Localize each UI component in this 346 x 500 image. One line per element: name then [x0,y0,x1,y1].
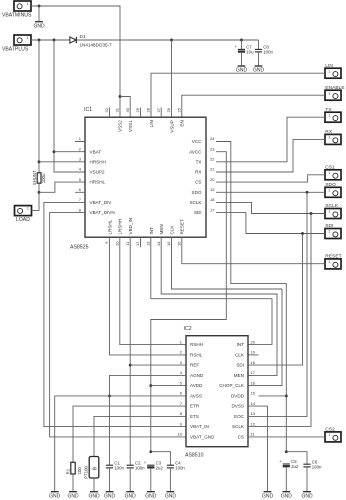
wire CS to CS1 connector [216,175,325,182]
capacitor C7 10u [235,44,255,54]
wire C7 lead [241,40,243,49]
svg-text:IC2: IC2 [184,326,192,332]
svg-text:GND: GND [301,493,313,499]
junction VBATMINUS-GND [38,5,41,8]
wire to C6 [286,452,307,465]
ground GND under C2 [125,492,137,500]
connector TX [325,107,341,122]
wire AVDD pin 5 [151,385,186,387]
svg-text:10: 10 [115,241,120,246]
svg-text:TX: TX [196,159,202,164]
svg-text:GND: GND [125,493,137,499]
connector RX [325,129,341,144]
wire diode cathode to VSUP rail [77,39,259,41]
wire ETS to PT100 [94,416,186,456]
svg-text:16: 16 [251,380,256,385]
svg-text:INT: INT [237,342,245,347]
wire C6 to ground [306,467,308,492]
junction SDO-EOC [306,191,309,194]
wire REF pin 3 [130,364,186,366]
svg-text:17: 17 [251,370,256,375]
svg-text:VBATMINUS: VBATMINUS [2,13,32,19]
svg-text:GND: GND [165,493,177,499]
connector X3 LOAD [15,206,32,224]
capacitor C8 100n [255,45,274,55]
wire DVSS to ground [248,406,268,492]
svg-text:REF: REF [190,363,199,368]
wire VBAT pin rail [54,40,85,172]
wire VBATPLUS to diode anode [31,39,70,41]
wire TX to connector [216,117,325,162]
wire to C4 [151,452,171,466]
svg-text:1: 1 [26,36,28,40]
wire LRSHH to RSHH [120,237,186,345]
ground GND under AVSS rail [49,492,61,500]
ground GND under DVSS [262,492,274,500]
svg-text:23: 23 [210,146,215,151]
svg-text:RX: RX [195,170,201,175]
svg-text:RESET: RESET [180,219,185,235]
svg-text:15: 15 [166,241,171,246]
junction HRSHH tap [38,160,41,163]
wire VBAT_DIVN to VBAT_GND [50,213,186,437]
wire C2 to ground [129,468,131,492]
svg-text:DVDD: DVDD [231,394,245,399]
svg-text:1: 1 [26,2,28,6]
junction HRSHL tap [38,191,41,194]
svg-text:PT100: PT100 [84,466,89,479]
resistor R1 100 [65,462,82,474]
svg-text:30: 30 [125,107,130,112]
junction VBAT pin tap [53,150,56,153]
svg-text:18: 18 [210,197,215,202]
wire C7 to ground [241,53,243,66]
svg-text:19: 19 [251,350,256,355]
op-amp U IC1 AS8525 body [70,107,215,250]
svg-text:32: 32 [104,107,109,112]
svg-text:12: 12 [135,241,140,246]
svg-text:100n: 100n [263,50,273,55]
svg-text:2u2: 2u2 [156,465,164,470]
svg-text:GND: GND [262,493,274,499]
svg-text:1: 1 [328,69,330,73]
junction VSS2 node [119,95,122,98]
svg-text:20: 20 [251,339,256,344]
svg-text:100n: 100n [114,465,124,470]
svg-text:AVCC: AVCC [189,149,202,154]
wire EN pin 25 to ENABLE connector [182,95,325,117]
wire HRSHH sense [39,161,85,163]
ground GND under C4 [165,492,177,500]
junction C3 tap [149,450,152,453]
wire VBATMINUS to VSS2 net [31,6,120,117]
svg-text:IC1: IC1 [84,107,92,113]
svg-text:10: 10 [178,432,183,437]
ground GND under C6 [301,492,313,500]
svg-text:24: 24 [210,136,215,141]
svg-text:VBATPLUS: VBATPLUS [2,47,29,53]
wire VCC net to DVDD [216,142,286,452]
wire C3 to ground [150,469,152,492]
svg-text:16: 16 [177,241,182,246]
capacitor C6 100n [303,459,322,469]
wire ETR to R1 [73,406,186,462]
wire LRSHL to RSHL [110,237,187,355]
svg-text:VSS2: VSS2 [118,120,123,132]
svg-text:INT: INT [149,227,154,235]
connector LIN [325,63,341,78]
svg-text:VCC: VCC [192,139,202,144]
svg-text:ETS: ETS [190,414,199,419]
svg-text:14: 14 [251,401,256,406]
svg-text:21: 21 [210,167,215,172]
svg-text:CS: CS [238,435,244,440]
svg-text:CHOP_CLK: CHOP_CLK [219,383,245,388]
svg-text:100n: 100n [135,465,145,470]
svg-text:VBAT_GND: VBAT_GND [190,435,215,440]
svg-text:12: 12 [251,421,256,426]
svg-text:ETR: ETR [190,404,200,409]
junction AVDD tap [149,384,152,387]
wire AVDD decoupling to C3 [150,386,152,452]
svg-text:1N4148DO35-7: 1N4148DO35-7 [80,42,113,47]
wire CS pin11 to CS2 [248,436,325,438]
junction REF tap [129,364,132,367]
svg-text:1: 1 [27,206,29,210]
svg-text:SDI: SDI [236,363,244,368]
svg-text:LOAD: LOAD [16,217,30,223]
svg-text:GND: GND [49,493,61,499]
wire SCLK pin12 riser [248,214,311,427]
svg-text:VBAT_DIV: VBAT_DIV [90,200,113,205]
svg-text:EN: EN [180,120,185,126]
svg-text:14: 14 [156,241,161,246]
svg-text:AVDD: AVDD [190,383,203,388]
wire AGND to C1 [110,375,187,465]
svg-text:LIN: LIN [149,120,154,127]
svg-text:1: 1 [328,210,330,214]
svg-text:25: 25 [177,107,182,112]
junction SCLK-IC2 [310,212,313,215]
junction AGND-AVSS ground [108,394,111,397]
wire to ground symbol [38,6,40,21]
wire CLK vertical to IC2 [248,289,282,386]
sensor PT100 temperature probe [84,457,99,479]
svg-text:EOC: EOC [234,414,245,419]
svg-text:26: 26 [166,107,171,112]
wire VBAT_DIV to VBAT_IN [44,202,186,426]
wire RESET net [182,237,325,264]
svg-text:1: 1 [328,136,330,140]
svg-text:VBAT: VBAT [90,149,102,154]
ground GND under C3 [145,492,157,500]
svg-text:20: 20 [210,177,215,182]
resistor SHUNT 100u [32,170,46,185]
svg-text:HRSHH: HRSHH [90,159,106,164]
connector X1 VBATMINUS [2,1,32,19]
svg-text:VBAT_DIVN: VBAT_DIVN [90,210,115,215]
svg-text:1: 1 [328,91,330,95]
junction C7 branch [240,39,243,42]
svg-text:RSHH: RSHH [190,342,203,347]
svg-text:VSS1: VSS1 [128,120,133,132]
svg-text:VBD_IN: VBD_IN [128,218,133,235]
wire SDI to connector [216,213,325,234]
svg-text:CS: CS [195,180,201,185]
capacitor C5 2u2 [279,459,299,469]
svg-text:θ: θ [93,467,99,470]
ground GND top-left [33,22,45,30]
svg-text:AS8525: AS8525 [70,244,89,250]
svg-text:AGND: AGND [190,373,204,378]
connector CS1 [325,164,341,179]
svg-text:19: 19 [210,187,215,192]
svg-text:22: 22 [210,157,215,162]
capacitor C3 2u2 [144,460,164,470]
ground GND under C8 [253,66,265,74]
ground GND under C5 [281,492,293,500]
wire shunt bottom to LOAD [32,183,40,210]
svg-text:LRSHH: LRSHH [118,219,123,235]
wire CLK net down [172,237,283,289]
wire LIN pin 28 to LIN connector [151,73,325,117]
wire C4 to ground [169,468,171,492]
svg-text:CLK: CLK [235,353,245,358]
wire MEN net [161,237,277,375]
wire C1 to ground [109,468,111,492]
wire battery plus to shunt top [38,40,40,173]
svg-text:100u: 100u [41,173,46,183]
svg-text:100: 100 [77,467,82,475]
wire AVCC net to AVDD [151,152,227,386]
svg-text:13: 13 [146,241,151,246]
wire EOC to SDO riser [248,192,307,416]
svg-text:MEN: MEN [234,373,244,378]
svg-text:GND: GND [253,68,265,74]
wire SDO to connector [216,191,325,193]
svg-text:SDI: SDI [194,210,202,215]
svg-text:SCLK: SCLK [232,424,245,429]
wire AVSS ground rail [55,396,186,492]
svg-text:2u2: 2u2 [291,464,299,469]
wire VSS1 branch [120,97,130,118]
wire SDI pin18 riser [248,234,303,366]
svg-text:VSUP2: VSUP2 [90,170,106,175]
wire R1 to ground [72,474,74,492]
junction C5 tap [285,450,288,453]
svg-text:HRSHL: HRSHL [90,180,106,185]
svg-text:29: 29 [135,107,140,112]
wire PT100 to ground [93,478,95,492]
connector SDI [325,223,341,238]
svg-text:13: 13 [251,411,256,416]
svg-text:RSHL: RSHL [190,353,203,358]
op-amp U IC2 AS8510 body [178,326,256,458]
ground GND under C7 [236,66,248,74]
wire C8 to ground [258,52,260,66]
wire C8 lead [258,40,260,49]
svg-text:GND: GND [145,493,157,499]
svg-text:SHUNT: SHUNT [32,170,37,185]
wire HRSHL sense jog [39,182,85,192]
svg-text:VBAT_IN: VBAT_IN [190,424,209,429]
svg-text:17: 17 [210,207,215,212]
svg-text:R1: R1 [65,468,70,474]
junction SDI-IC2 [301,232,304,235]
connector CS2 [325,427,341,442]
svg-text:MEN: MEN [159,224,164,234]
junction shunt branch [38,39,41,42]
svg-text:27: 27 [156,107,161,112]
svg-text:DVSS: DVSS [231,404,244,409]
junction DVDD tap [285,394,288,397]
svg-text:1: 1 [328,113,330,117]
svg-text:GND: GND [33,23,45,29]
wire INT net [151,237,272,345]
ground GND under C1 [104,492,116,500]
connector SDO [325,182,341,197]
svg-text:GND: GND [88,493,100,499]
wire VSUP pin 26 to battery rail [171,40,173,117]
wire VBAT pin stub [54,151,85,153]
ground GND under PT100 [88,492,100,500]
svg-text:28: 28 [146,107,151,112]
wire C5 to ground [285,467,287,491]
svg-text:D1: D1 [80,34,86,40]
svg-text:1: 1 [328,189,330,193]
connector X2 VBATPLUS [2,35,31,53]
connector ENABLE [325,85,345,100]
svg-text:1: 1 [328,230,330,234]
capacitor C4 100n [167,460,186,470]
junction VSUP pin branch [170,39,173,42]
svg-text:AVSS: AVSS [190,394,202,399]
wire DVDD pin 15 [259,395,287,397]
svg-text:LRSHL: LRSHL [107,219,112,234]
svg-text:GND: GND [67,493,79,499]
svg-text:GND: GND [236,68,248,74]
svg-text:CLK: CLK [169,225,174,235]
svg-text:1: 1 [328,171,330,175]
wire RX to connector [216,139,325,172]
svg-text:GND: GND [104,493,116,499]
svg-text:15: 15 [251,391,256,396]
svg-text:100n: 100n [312,464,322,469]
capacitor C2 100n [127,460,146,470]
svg-text:31: 31 [115,107,120,112]
wire VBD_IN to REF and C2 [129,237,131,465]
svg-text:VSUP: VSUP [169,120,174,133]
wire CLK pin19 stub [248,354,259,356]
svg-text:1: 1 [328,433,330,437]
capacitor C1 100n [106,460,125,470]
svg-text:AS8510: AS8510 [185,452,204,458]
junction VBAT branch [53,39,56,42]
svg-text:1: 1 [328,260,330,264]
connector SCLK [325,203,341,218]
diode D1 1N4148DO35-7 [70,34,112,47]
wire SCLK to connector [216,202,325,213]
connector RESET [325,254,342,269]
svg-text:18: 18 [251,360,256,365]
svg-text:100n: 100n [175,465,185,470]
svg-text:SDO: SDO [192,190,202,195]
svg-text:SCLK: SCLK [189,200,202,205]
svg-text:10u: 10u [246,50,254,55]
svg-text:GND: GND [281,493,293,499]
ground GND under R1 [67,492,79,500]
